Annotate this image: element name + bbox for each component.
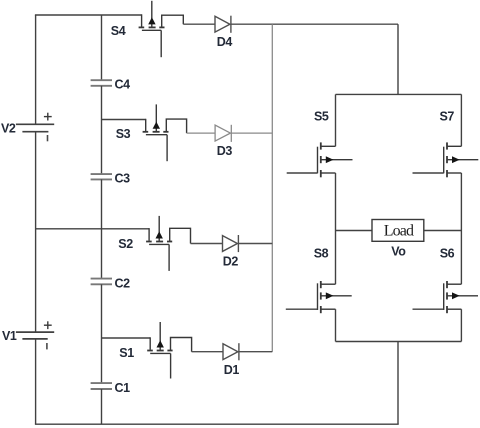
svg-text:C3: C3: [115, 172, 131, 186]
svg-text:S7: S7: [440, 109, 455, 123]
wire S5 gate lead: [287, 172, 318, 174]
wire D4 anode row: [183, 23, 215, 25]
transistor S5: [314, 109, 353, 177]
wire S8 gate lead: [286, 308, 318, 310]
load box: [372, 220, 424, 242]
wire capacitor stack segment C4-C3 with S3 tap: [101, 86, 103, 174]
wire H-bridge feed vertical: [397, 24, 399, 94]
diode D1: [223, 343, 239, 377]
wire H-bridge bottom bus: [336, 341, 462, 343]
wire S6 gate lead: [413, 308, 444, 310]
svg-text:D4: D4: [217, 35, 233, 49]
wire top rail: [35, 14, 142, 16]
battery V1: [2, 321, 54, 349]
svg-text:C1: C1: [115, 381, 131, 395]
wire H-bridge left leg lower: [335, 309, 337, 341]
svg-text:S6: S6: [440, 247, 455, 261]
capacitor C4: [91, 78, 131, 92]
capacitor C1: [91, 381, 131, 395]
wire D1 cathode row to rail: [239, 351, 272, 353]
svg-text:S5: S5: [314, 109, 329, 123]
wire H-bridge right leg upper: [460, 94, 462, 146]
transistor S7: [440, 109, 479, 177]
wire H-bridge top bus: [336, 93, 462, 95]
svg-text:V2: V2: [1, 121, 16, 135]
svg-text:D3: D3: [217, 144, 233, 158]
wire capacitor stack top segment: [101, 15, 103, 80]
wire left rail middle segment: [35, 132, 37, 332]
capacitor C2: [91, 276, 131, 290]
svg-text:S1: S1: [119, 346, 134, 360]
wire S1 drain entry from stack: [102, 337, 151, 339]
wire diode common rail vertical: [271, 24, 273, 352]
wire D1 anode row: [192, 351, 223, 353]
capacitor C3: [91, 172, 131, 186]
diode D3: [215, 125, 232, 158]
transistor S1: [119, 322, 191, 379]
svg-text:D1: D1: [224, 363, 240, 377]
transistor S2: [118, 216, 190, 271]
wire S3 drain entry from stack: [102, 119, 146, 121]
wire D4 cathode row to H-bridge feed: [231, 23, 398, 25]
transistor S8: [314, 246, 352, 313]
wire H-bridge right leg lower: [460, 309, 462, 341]
svg-text:D2: D2: [223, 254, 239, 268]
wire capacitor stack segment C3-C2: [101, 179, 103, 278]
diode D4: [215, 16, 232, 50]
wire D3 anode row: [187, 132, 216, 134]
wire S7 gate lead: [413, 172, 444, 174]
svg-text:S2: S2: [118, 237, 133, 251]
wire D2 cathode row to rail: [238, 243, 272, 245]
diode D2: [223, 235, 239, 268]
wire H-bridge left leg middle: [335, 173, 337, 284]
wire bottom rail: [35, 423, 399, 425]
svg-text:Load: Load: [384, 222, 414, 239]
wire load branch right: [424, 230, 462, 232]
wire H-bridge left leg upper: [335, 94, 337, 146]
battery V2: [1, 113, 54, 142]
svg-text:S4: S4: [111, 24, 126, 38]
wire D2 anode row: [191, 243, 223, 245]
wire bottom feed vertical: [397, 342, 399, 425]
svg-text:V1: V1: [2, 329, 17, 343]
svg-text:C2: C2: [115, 276, 131, 290]
svg-text:S3: S3: [116, 127, 131, 141]
wire load branch left: [336, 230, 373, 232]
wire left rail lower segment: [35, 339, 37, 424]
svg-text:Vo: Vo: [391, 244, 406, 258]
svg-text:C4: C4: [115, 78, 131, 92]
wire H-bridge right leg middle: [460, 173, 462, 284]
wire capacitor stack segment C2-C1 with S1 tap: [101, 284, 103, 383]
transistor S3: [116, 104, 187, 161]
transistor S6: [440, 247, 478, 314]
wire S2 drain entry from left rail across stack: [36, 228, 150, 230]
wire D3 cathode row to rail: [231, 132, 272, 134]
svg-text:S8: S8: [314, 246, 329, 260]
transistor S4: [111, 1, 184, 57]
wire capacitor stack bottom segment: [101, 389, 103, 424]
wire left rail upper segment: [35, 15, 37, 124]
